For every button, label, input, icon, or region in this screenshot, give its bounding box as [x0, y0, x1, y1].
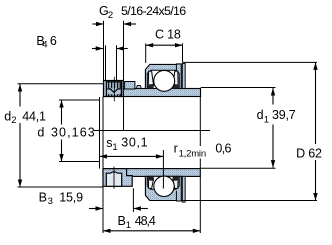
svg-text:4: 4	[42, 40, 47, 51]
svg-text:r: r	[174, 142, 178, 156]
svg-text:B: B	[39, 190, 47, 204]
svg-text:d: d	[37, 126, 44, 140]
svg-text:D 62: D 62	[296, 147, 322, 161]
svg-text:30,163: 30,163	[51, 125, 96, 139]
svg-text:3: 3	[48, 196, 53, 207]
svg-text:48,4: 48,4	[135, 214, 156, 228]
svg-text:1: 1	[264, 114, 269, 125]
svg-text:1: 1	[112, 142, 117, 153]
svg-text:6: 6	[50, 34, 57, 48]
svg-text:30,1: 30,1	[121, 135, 148, 149]
svg-text:5/16-24x5/16: 5/16-24x5/16	[121, 4, 186, 18]
svg-text:C 18: C 18	[155, 27, 181, 41]
svg-text:d: d	[257, 108, 264, 122]
svg-text:d: d	[4, 109, 11, 123]
svg-text:B: B	[118, 214, 126, 228]
svg-text:15,9: 15,9	[59, 190, 83, 204]
svg-text:44,1: 44,1	[22, 109, 46, 123]
svg-text:39,7: 39,7	[272, 108, 296, 122]
svg-text:2: 2	[11, 115, 16, 126]
svg-text:1: 1	[126, 220, 131, 231]
svg-text:2: 2	[108, 10, 113, 21]
svg-text:1,2min: 1,2min	[179, 148, 206, 159]
svg-text:0,6: 0,6	[215, 142, 231, 156]
